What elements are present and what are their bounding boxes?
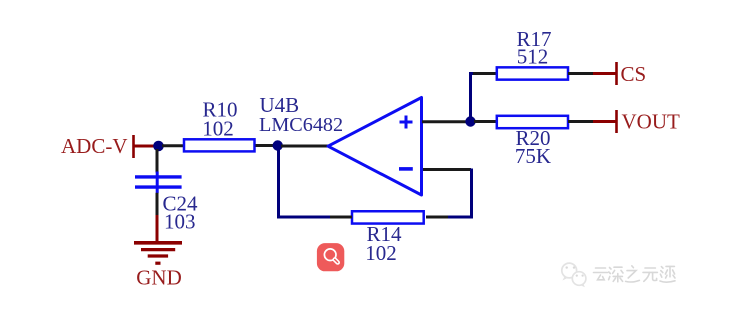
pin R10 left (162, 144, 184, 147)
op-amp plus input symbol (400, 116, 413, 129)
node junction B (273, 140, 283, 150)
svg-text:102: 102 (202, 117, 234, 141)
svg-text:LMC6482: LMC6482 (259, 114, 343, 136)
watermark wechat icon (562, 263, 586, 287)
node junction A (153, 141, 164, 152)
pin R17 left (473, 72, 496, 75)
node junction C (465, 116, 475, 126)
port VOUT tick (615, 110, 618, 133)
port ADC-V tick (132, 135, 135, 158)
wire feedback right vertical (447, 169, 472, 218)
op-amp minus input symbol (399, 167, 413, 171)
pin R14 left (329, 216, 352, 219)
op-amp U4B triangle (328, 98, 422, 196)
svg-text:CS: CS (621, 62, 647, 86)
pin op-amp output (281, 145, 329, 148)
resistor R14 (352, 211, 424, 223)
wire feedback left to junction B (279, 149, 331, 217)
svg-text:75K: 75K (515, 144, 551, 168)
wire to GND (156, 215, 159, 243)
svg-text:ADC-V: ADC-V (61, 134, 128, 158)
pin C24 top (156, 149, 159, 173)
port CS tick (615, 62, 618, 85)
wire port CS stub (593, 72, 617, 75)
wire port VOUT stub (593, 120, 617, 123)
svg-text:512: 512 (517, 45, 549, 69)
ground symbol (134, 243, 182, 263)
pin R20 left (474, 120, 496, 123)
resistor R17 (497, 67, 568, 79)
svg-text:GND: GND (136, 266, 182, 290)
magnifier icon glass (324, 249, 337, 263)
pin C24 bottom (156, 193, 159, 217)
svg-text:VOUT: VOUT (622, 110, 680, 134)
pin op-amp plus (422, 120, 467, 123)
magnifier icon background (317, 243, 344, 271)
resistor R10 (184, 139, 255, 151)
wire junction C up to R17 (471, 74, 476, 119)
watermark wechat icon eyes (566, 266, 584, 276)
wire port ADC-V stub (134, 145, 156, 148)
pin R10 right (256, 144, 275, 147)
watermark text strokes (云深之无迹) (594, 266, 676, 282)
svg-text:102: 102 (365, 241, 397, 265)
pin R14 right (426, 216, 448, 219)
pin R17 right (568, 72, 594, 75)
pin op-amp minus (423, 168, 471, 171)
capacitor C24 (135, 172, 182, 194)
resistor R20 (497, 116, 568, 128)
pin R20 right (568, 120, 594, 123)
svg-text:103: 103 (164, 210, 196, 234)
